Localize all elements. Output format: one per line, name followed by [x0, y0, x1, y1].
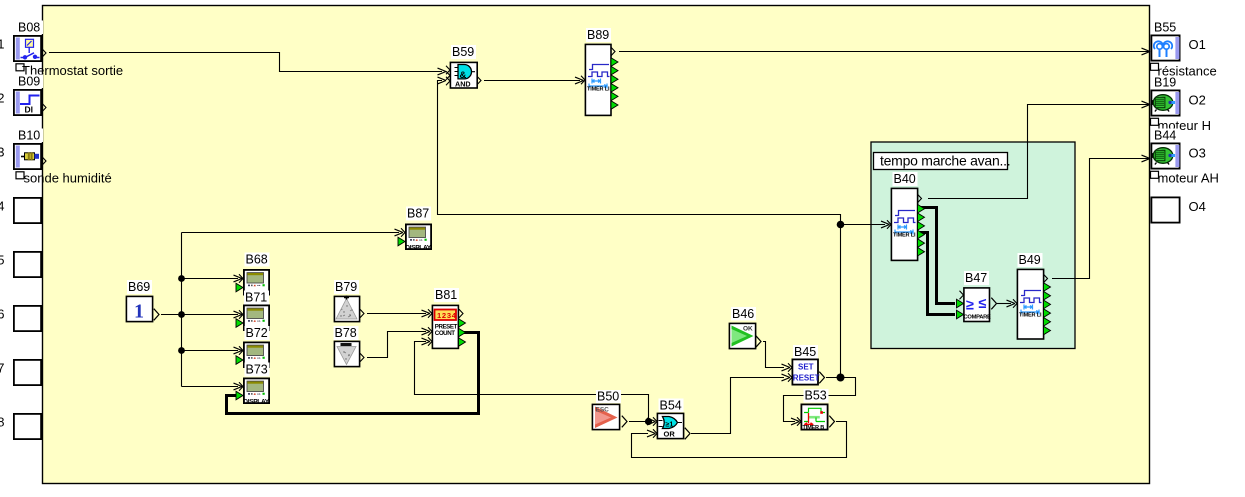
svg-text:B89: B89 — [587, 28, 609, 42]
timer block B49 TIMER LI — [1013, 253, 1051, 339]
wire B53 out looping back to B54 input2 — [632, 422, 847, 458]
svg-text:1234: 1234 — [437, 311, 457, 320]
svg-text:DISPLAY: DISPLAY — [243, 399, 269, 406]
svg-text:B19: B19 — [1154, 76, 1176, 90]
svg-text:AND: AND — [455, 79, 471, 88]
svg-text:OK: OK — [743, 326, 753, 333]
thick wire B40 param out1 to B47 input2 — [920, 208, 955, 304]
svg-text:tempo marche avan...: tempo marche avan... — [880, 153, 1010, 169]
display block B71 — [236, 291, 269, 331]
svg-text:I5: I5 — [0, 253, 5, 268]
svg-text:B81: B81 — [435, 288, 457, 302]
timer block B40 TIMER LI — [887, 172, 925, 260]
svg-text:ESC: ESC — [596, 407, 610, 414]
svg-text:O4: O4 — [1189, 199, 1206, 214]
svg-text:I3: I3 — [0, 145, 5, 160]
svg-text:B68: B68 — [246, 253, 268, 267]
comparator B47 — [957, 271, 997, 322]
empty input slot I7 — [14, 360, 41, 385]
input block B08 (digital input, thermostat) — [14, 21, 46, 62]
svg-text:sonde humidité: sonde humidité — [24, 171, 112, 186]
svg-text:I4: I4 — [0, 199, 5, 214]
wire net B50 out to B54 input1 and back to B81 input3 — [415, 338, 656, 425]
AND gate B59 — [446, 45, 481, 88]
wire B46 out to B45 SET input — [763, 342, 790, 371]
svg-text:B54: B54 — [660, 399, 682, 413]
comment marker square O1 — [1151, 63, 1159, 70]
svg-text:B44: B44 — [1154, 129, 1176, 143]
output block O2 B19 (motor H) — [1151, 76, 1179, 116]
svg-text:B46: B46 — [732, 307, 754, 321]
svg-text:I7: I7 — [0, 361, 5, 376]
comment marker square O2 — [1151, 118, 1159, 125]
wire B47 out to B49 input — [997, 300, 1015, 307]
svg-text:COMPARE: COMPARE — [964, 315, 992, 321]
svg-text:≤: ≤ — [979, 296, 987, 312]
wire B78 out to B81 input2 — [367, 328, 430, 357]
svg-text:B73: B73 — [246, 363, 268, 377]
junction node at B45 output — [837, 374, 845, 382]
wire B69 out to distribution bus — [161, 229, 403, 390]
green highlighted macro region "tempo marche avant" — [871, 142, 1075, 349]
empty input slot I6 — [14, 306, 41, 331]
constant block B69 value 1 — [126, 280, 159, 323]
input block B10 (humidity probe) — [14, 129, 46, 170]
wire B79 out to B81 input1 — [367, 310, 430, 317]
empty input slot I8 — [14, 414, 41, 439]
OR gate B54 — [653, 399, 690, 440]
svg-text:I6: I6 — [0, 307, 5, 322]
display block B73 — [236, 363, 270, 406]
svg-text:moteur AH: moteur AH — [1158, 171, 1219, 186]
output block O1 B55 (resistance) — [1151, 21, 1179, 61]
wire B54 out to B45 RESET input — [691, 374, 790, 433]
junction node bus-B72 — [178, 347, 185, 354]
OK key button B46 — [729, 307, 761, 349]
svg-text:TIMER B: TIMER B — [803, 425, 825, 431]
display block B68 — [236, 253, 270, 295]
wire B89 out to output O1 — [619, 48, 1150, 55]
empty input slot I4 — [14, 198, 41, 223]
timer block B89 TIMER LI — [581, 28, 618, 115]
svg-text:B09: B09 — [18, 75, 40, 89]
svg-text:≥1: ≥1 — [666, 422, 674, 429]
junction node bus-B68 — [178, 275, 185, 282]
comment marker square O3 — [1151, 171, 1159, 178]
display block B72 — [236, 326, 270, 367]
junction node bus-B71 — [178, 311, 185, 318]
svg-text:DISPLAY: DISPLAY — [405, 245, 431, 252]
empty output slot O4 — [1151, 197, 1179, 222]
svg-text:B47: B47 — [965, 271, 987, 285]
junction node on vertical at B40 input level — [837, 221, 845, 229]
set-reset latch B45 — [788, 345, 825, 385]
preset counter B81 — [428, 288, 466, 348]
svg-text:B10: B10 — [18, 129, 40, 143]
wire B49 out to output O3 — [1052, 155, 1150, 278]
down key button B78 — [334, 326, 365, 367]
svg-text:I8: I8 — [0, 415, 5, 430]
svg-text:B50: B50 — [597, 390, 619, 404]
thick wire B40 param out2 to B47 input3 — [920, 233, 955, 315]
svg-text:O3: O3 — [1189, 146, 1206, 161]
comment marker square B08 — [16, 64, 24, 71]
ESC key button B50 — [592, 390, 627, 430]
svg-text:B45: B45 — [794, 345, 816, 359]
thick wire B81 numeric out to B73 display input — [227, 333, 479, 414]
wire net from B45 output: up to B40 input and B59 input2, down to B53 input — [438, 77, 890, 425]
up key button B79 — [334, 280, 364, 322]
svg-text:B55: B55 — [1154, 21, 1176, 35]
output block O3 B44 (motor AH) — [1151, 129, 1179, 169]
wire B40 out to output O2 — [928, 101, 1150, 198]
svg-text:≥: ≥ — [966, 298, 974, 314]
svg-text:B40: B40 — [894, 172, 916, 186]
svg-text:B59: B59 — [452, 45, 474, 59]
timer block B53 (pulse timer) — [797, 389, 835, 431]
macro title box tempo marche avan... — [874, 153, 1011, 170]
svg-text:B87: B87 — [407, 207, 429, 221]
svg-text:SET: SET — [798, 363, 814, 372]
svg-text:B69: B69 — [128, 280, 150, 294]
wire B59 out to B89 input — [484, 77, 584, 84]
svg-text:B49: B49 — [1019, 253, 1041, 267]
svg-text:B78: B78 — [335, 326, 357, 340]
svg-text:O1: O1 — [1189, 37, 1206, 52]
svg-text:1: 1 — [134, 301, 144, 323]
svg-text:I1: I1 — [0, 37, 5, 52]
svg-text:B08: B08 — [18, 21, 40, 35]
input block B09 (digital input DI) — [14, 75, 46, 116]
svg-text:B71: B71 — [245, 291, 267, 305]
empty input slot I5 — [14, 252, 41, 277]
svg-text:OR: OR — [664, 430, 676, 439]
junction node at B50 output — [645, 418, 652, 425]
svg-text:RESET: RESET — [793, 374, 820, 383]
svg-text:DI: DI — [25, 105, 34, 115]
svg-text:O2: O2 — [1189, 93, 1206, 108]
svg-text:B72: B72 — [246, 326, 268, 340]
svg-text:I2: I2 — [0, 91, 5, 106]
wire B08 out to B59 input1 — [49, 53, 446, 75]
comment marker square B10 — [16, 172, 24, 179]
svg-text:B79: B79 — [335, 280, 357, 294]
svg-text:B53: B53 — [805, 389, 827, 403]
svg-text:COUNT: COUNT — [435, 330, 455, 337]
display block B87 — [398, 207, 432, 252]
